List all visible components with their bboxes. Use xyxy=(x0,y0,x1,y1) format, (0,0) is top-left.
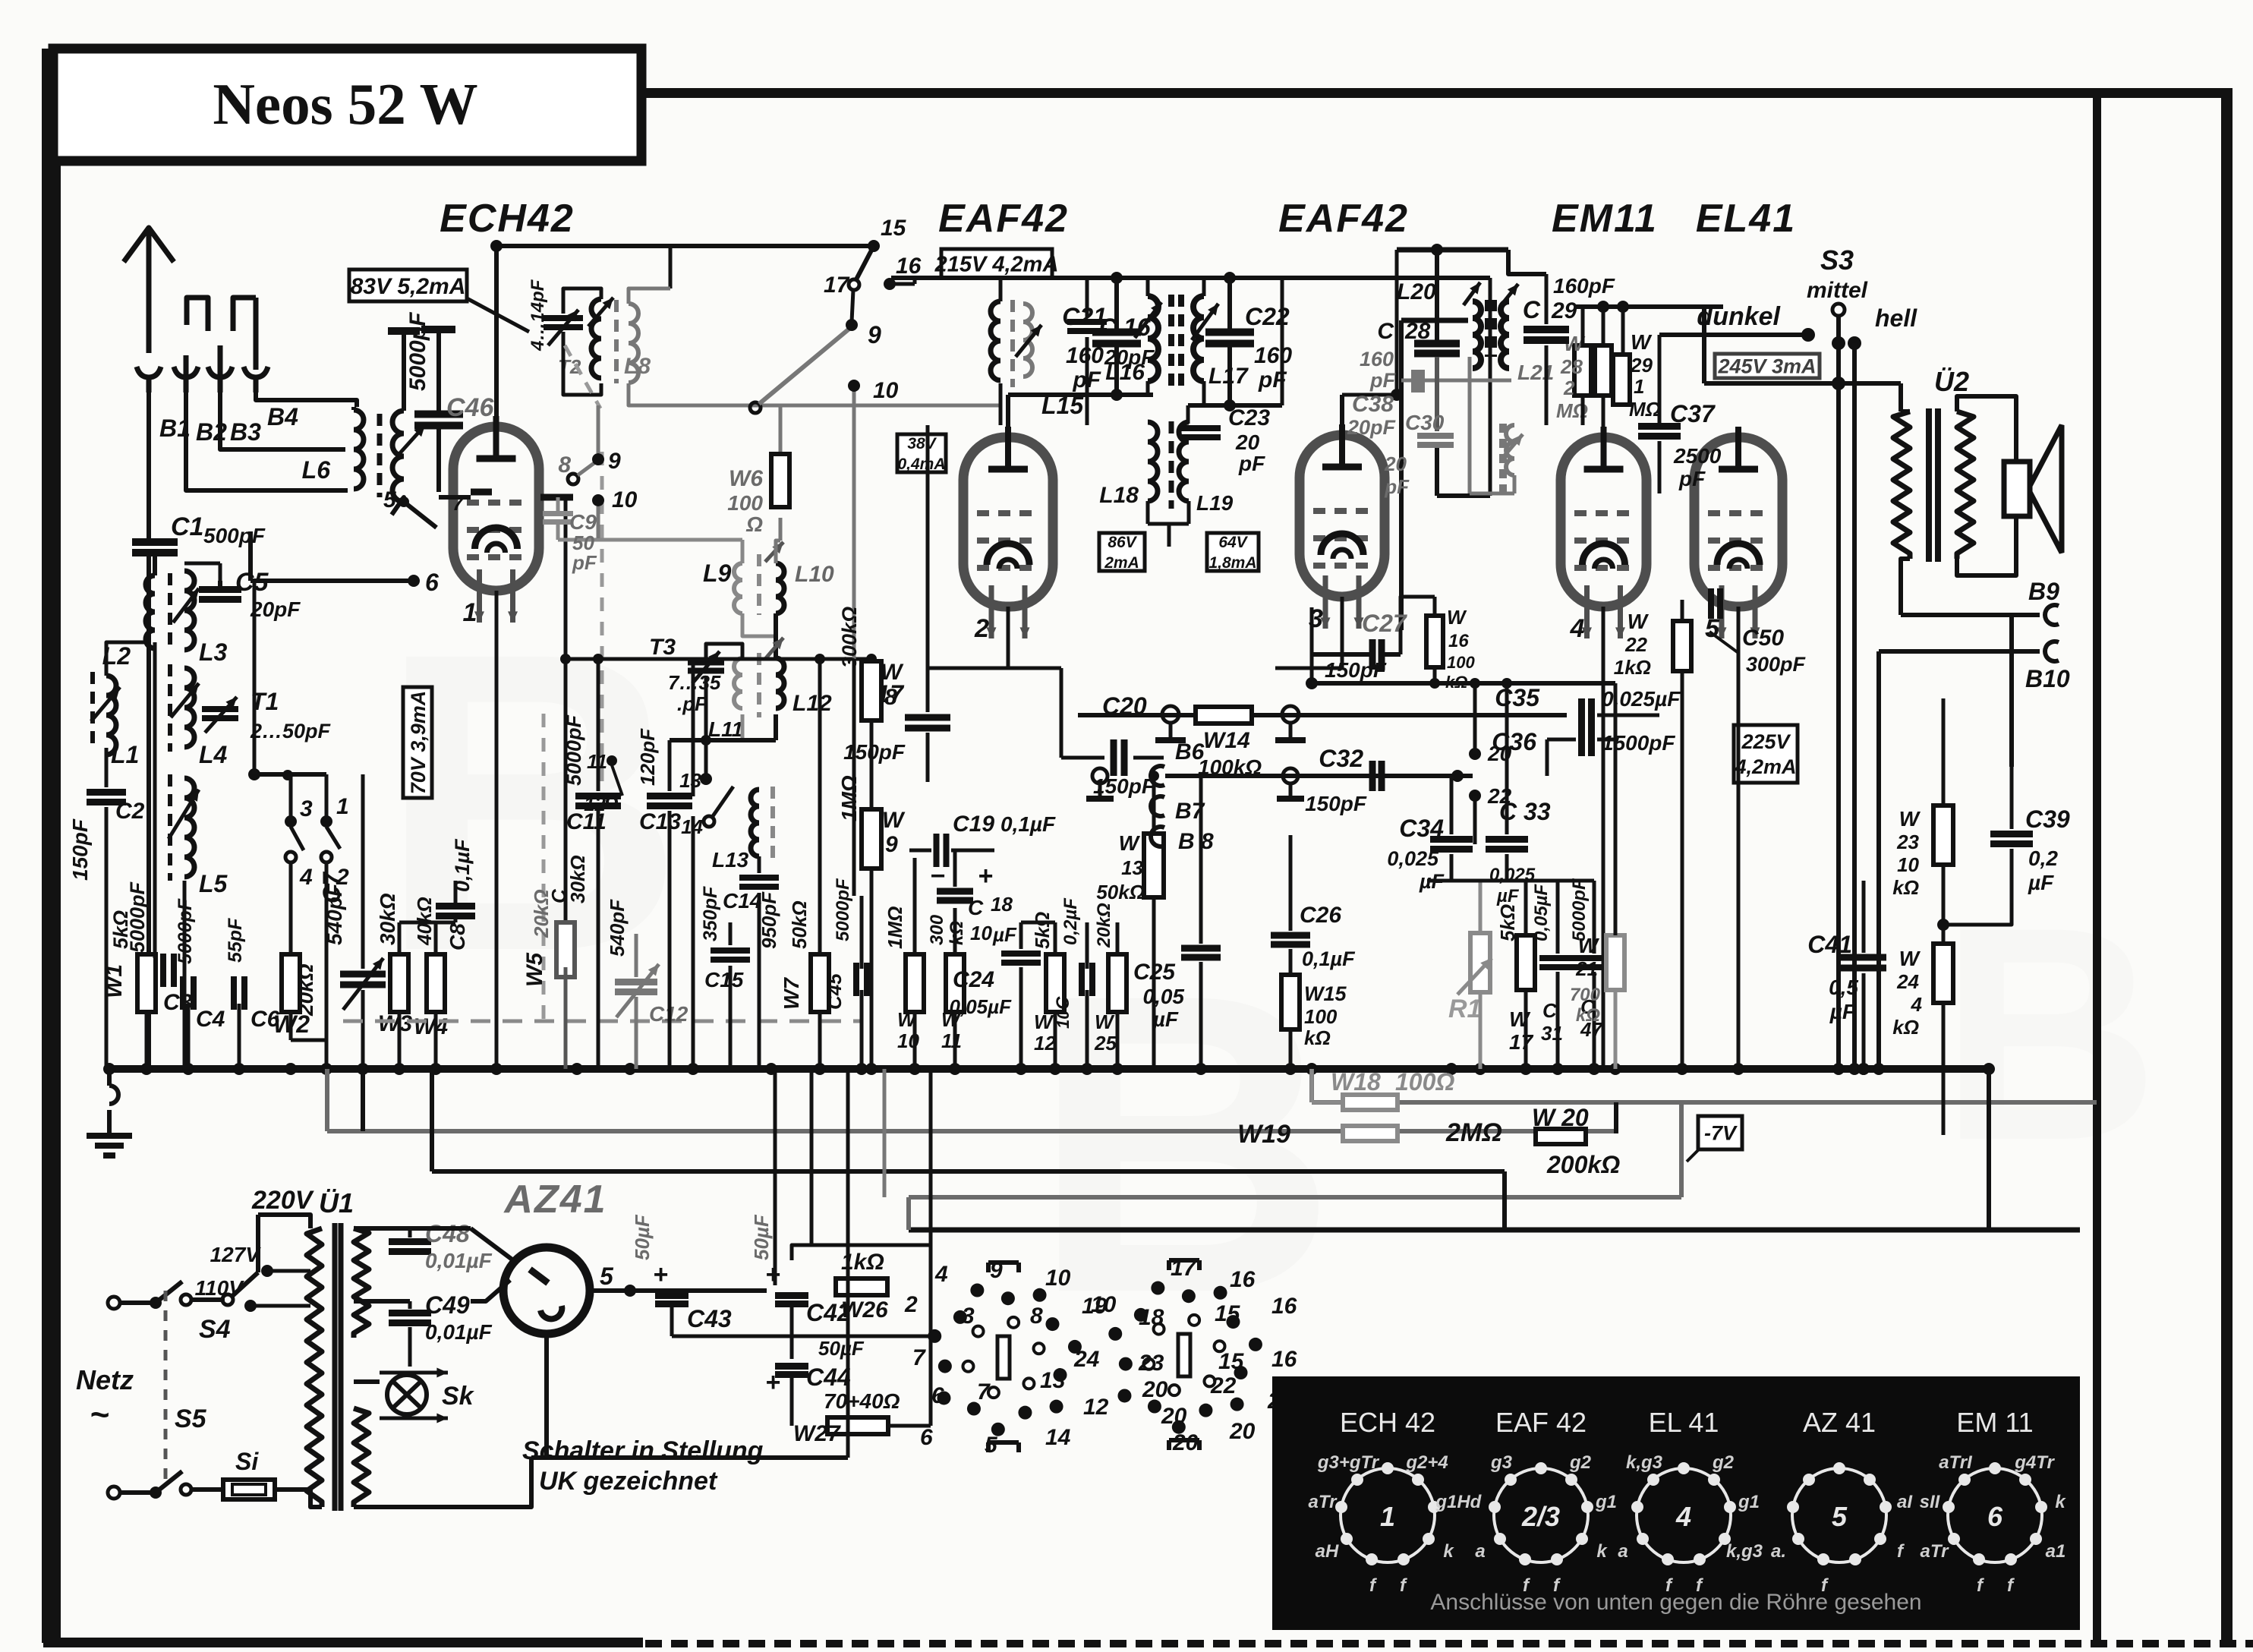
switch 5-7 lever xyxy=(404,492,465,528)
svg-text:225V: 225V xyxy=(1741,730,1791,753)
svg-text:kΩ: kΩ xyxy=(1304,1026,1331,1049)
wire W3 W4 top xyxy=(399,881,455,954)
svg-text:83V 5,2mA: 83V 5,2mA xyxy=(351,274,466,299)
osc frame wires xyxy=(563,246,1000,454)
resistor W27 xyxy=(793,1389,900,1446)
svg-text:g2+4: g2+4 xyxy=(1405,1452,1448,1473)
core L8 xyxy=(614,300,619,383)
svg-text:18: 18 xyxy=(1139,1305,1164,1330)
resistor W6 lead xyxy=(779,436,783,541)
svg-text:µF: µF xyxy=(992,923,1017,946)
wire tube3 plate xyxy=(1342,395,1397,424)
svg-text:W7: W7 xyxy=(780,977,803,1010)
switch S5 lever top xyxy=(156,1282,191,1305)
svg-text:64V: 64V xyxy=(1218,534,1248,551)
svg-text:AZ41: AZ41 xyxy=(503,1178,607,1222)
wire 225 box area xyxy=(1783,683,1785,714)
svg-text:S4: S4 xyxy=(199,1315,231,1344)
svg-text:0,1µF: 0,1µF xyxy=(451,838,474,892)
transformer U2 label xyxy=(1934,366,1969,397)
svg-text:S5: S5 xyxy=(175,1405,207,1433)
svg-text:EM 11: EM 11 xyxy=(1956,1407,2033,1438)
page border bottom solid xyxy=(43,1638,643,1647)
label EAF42 first xyxy=(938,197,1069,241)
cap C10 xyxy=(1053,897,1092,1029)
L21 secondary gray xyxy=(1470,357,1554,493)
svg-text:2500: 2500 xyxy=(1673,444,1722,468)
cap C6 xyxy=(225,918,280,1032)
svg-text:15: 15 xyxy=(1218,1349,1245,1374)
svg-text:160: 160 xyxy=(1360,348,1394,370)
svg-text:C: C xyxy=(1053,996,1073,1010)
svg-text:C: C xyxy=(1542,999,1558,1022)
U2 primary wires xyxy=(1901,383,1910,615)
svg-text:5kΩ: 5kΩ xyxy=(1031,912,1054,949)
svg-text:Netz: Netz xyxy=(76,1364,134,1395)
svg-text:13: 13 xyxy=(1040,1368,1066,1393)
pinout EL 41 xyxy=(1618,1407,1763,1596)
svg-text:150pF: 150pF xyxy=(1305,792,1367,815)
cap C27 xyxy=(1306,597,1435,689)
wire 10 long down xyxy=(852,386,856,896)
svg-text:kΩ: kΩ xyxy=(1892,1016,1919,1039)
svg-text:W: W xyxy=(1447,606,1467,629)
voltage box 225V 4,2mA xyxy=(1734,725,1798,783)
voltage box 83V 5,2mA xyxy=(349,270,529,332)
label ECH42 xyxy=(440,197,575,241)
svg-text:kΩ: kΩ xyxy=(1576,1005,1600,1026)
switch 8 contacts tube1 xyxy=(540,405,638,538)
svg-text:EAF 42: EAF 42 xyxy=(1495,1407,1587,1438)
svg-text:L19: L19 xyxy=(1196,491,1234,515)
connector B3 xyxy=(208,298,261,446)
coil L6 xyxy=(302,407,364,489)
svg-text:dunkel: dunkel xyxy=(1697,302,1781,331)
svg-text:L8: L8 xyxy=(624,354,651,379)
svg-text:W: W xyxy=(1899,807,1921,831)
svg-text:20: 20 xyxy=(1161,1404,1187,1429)
coil L2 xyxy=(102,575,155,670)
wire W3W4 bottom xyxy=(399,1012,436,1069)
svg-text:C15: C15 xyxy=(704,968,744,992)
resistor W2 20k xyxy=(273,954,317,1038)
cap C29 xyxy=(1508,250,1615,425)
cap C11 xyxy=(562,659,621,1069)
svg-text:11: 11 xyxy=(941,1029,962,1052)
svg-text:L16: L16 xyxy=(1105,360,1145,385)
svg-text:W: W xyxy=(1631,330,1653,354)
svg-text:L4: L4 xyxy=(199,741,228,768)
coil L9 xyxy=(558,540,742,613)
svg-text:k: k xyxy=(2055,1492,2066,1512)
coil L10 xyxy=(765,541,834,613)
osc xfmr1 bottoms xyxy=(687,613,776,658)
heater bus wire 1 xyxy=(1312,1069,2097,1102)
switch S4 xyxy=(192,1272,258,1344)
svg-text:EAF42: EAF42 xyxy=(938,197,1069,241)
svg-text:6: 6 xyxy=(920,1425,933,1450)
label EL41 xyxy=(1696,197,1796,241)
svg-text:31: 31 xyxy=(1541,1022,1563,1045)
svg-text:0,4mA: 0,4mA xyxy=(897,456,945,473)
svg-text:g3: g3 xyxy=(1490,1452,1513,1473)
svg-text:150pF: 150pF xyxy=(1325,658,1387,682)
svg-text:g1H: g1H xyxy=(1435,1492,1470,1512)
wire node6 left xyxy=(248,531,253,581)
svg-text:10: 10 xyxy=(1897,853,1919,876)
label 4-14pF xyxy=(528,279,548,352)
svg-text:16: 16 xyxy=(1448,631,1469,651)
svg-text:W14: W14 xyxy=(1203,728,1250,753)
page border right inner xyxy=(2093,93,2101,1646)
svg-text:10: 10 xyxy=(1045,1266,1071,1291)
svg-text:127V: 127V xyxy=(210,1243,262,1266)
svg-text:15: 15 xyxy=(881,216,907,241)
svg-text:C30: C30 xyxy=(1405,411,1445,434)
svg-text:C27: C27 xyxy=(1362,610,1408,637)
svg-text:1kΩ: 1kΩ xyxy=(1614,656,1651,679)
IF1 coil L16 xyxy=(1105,296,1161,385)
cap C45 xyxy=(823,878,867,1069)
AZ41 envelope xyxy=(503,1247,590,1334)
svg-text:g4Tr: g4Tr xyxy=(2014,1452,2055,1473)
wire em11 top rail xyxy=(1575,301,1723,437)
cap C31 xyxy=(1531,883,1576,1045)
pinout AZ 41 xyxy=(1771,1407,1913,1596)
IF2 frame xyxy=(1148,405,1201,547)
resistor W17 xyxy=(1496,904,1535,1054)
connector B1 xyxy=(137,367,191,442)
coil L20 xyxy=(1397,279,1481,368)
svg-text:µF: µF xyxy=(1829,1000,1856,1023)
svg-text:+: + xyxy=(978,862,993,891)
page border bottom dashed edge xyxy=(645,1640,2253,1647)
U2 core xyxy=(1929,408,1938,562)
fuse Si xyxy=(192,1448,310,1499)
wire C11 xyxy=(692,659,695,1069)
cap C18 electrolytic xyxy=(930,862,1017,946)
U2 secondary winding xyxy=(1957,411,1974,559)
svg-text:2: 2 xyxy=(974,614,989,643)
svg-text:C42: C42 xyxy=(806,1299,851,1326)
svg-text:0,2µF: 0,2µF xyxy=(1060,897,1081,945)
wire L7 top xyxy=(388,331,420,411)
svg-text:1500pF: 1500pF xyxy=(1602,731,1675,755)
speaker xyxy=(2004,425,2062,553)
IF1 frame xyxy=(1008,278,1282,411)
svg-text:245V 3mA: 245V 3mA xyxy=(1717,355,1816,378)
svg-text:C49: C49 xyxy=(425,1291,470,1319)
transformer U1 label xyxy=(319,1187,354,1219)
pinout panel background xyxy=(1272,1376,2080,1630)
svg-text:C37: C37 xyxy=(1670,400,1716,427)
svg-text:1MΩ: 1MΩ xyxy=(884,906,906,949)
svg-text:+: + xyxy=(653,1260,668,1289)
svg-text:17: 17 xyxy=(1509,1030,1534,1054)
svg-text:4: 4 xyxy=(299,865,313,890)
core L11 L12 xyxy=(757,653,761,717)
wire C1 down xyxy=(153,555,157,575)
svg-text:L20: L20 xyxy=(1397,279,1436,304)
label Schalter xyxy=(522,1436,764,1496)
power vertical feeds xyxy=(775,1069,884,1458)
gang link dashed vertical xyxy=(544,345,602,1021)
svg-text:5kΩ: 5kΩ xyxy=(1496,904,1519,941)
svg-text:µF: µF xyxy=(2028,871,2054,894)
IF2 core xyxy=(1169,421,1174,509)
svg-text:0,2: 0,2 xyxy=(2028,846,2058,870)
svg-text:6: 6 xyxy=(425,569,439,596)
core L2 L3 xyxy=(168,573,172,645)
svg-text:3: 3 xyxy=(300,796,313,821)
U2 secondary wires xyxy=(1957,396,2016,575)
wire W21 xyxy=(1614,683,1618,1069)
resistor W13 xyxy=(1096,771,1164,1069)
svg-text:−: − xyxy=(930,862,945,891)
svg-text:70V 3,9mA: 70V 3,9mA xyxy=(407,691,430,795)
svg-text:C50: C50 xyxy=(1742,626,1784,651)
cap C25 xyxy=(1133,948,1221,1031)
svg-text:29: 29 xyxy=(1551,298,1577,323)
cap C47 xyxy=(1569,878,1612,1041)
switch contact 1-2 xyxy=(320,794,349,890)
wires R1 W17 area xyxy=(1427,683,1594,1069)
svg-text:C2: C2 xyxy=(115,799,145,824)
antenna xyxy=(124,228,174,353)
vertical wires middle xyxy=(1087,317,1169,668)
svg-text:hell: hell xyxy=(1875,304,1917,332)
svg-text:3: 3 xyxy=(962,1304,975,1329)
cap C33 xyxy=(1486,798,1551,906)
svg-text:2mA: 2mA xyxy=(1104,554,1139,572)
wire tube4 bottom xyxy=(1602,607,1605,1069)
ground symbol xyxy=(87,1136,132,1155)
wire y975 xyxy=(670,735,776,746)
voltage box 86V 2mA xyxy=(1099,533,1145,572)
svg-text:2: 2 xyxy=(904,1292,918,1317)
svg-text:24: 24 xyxy=(1896,970,1919,993)
svg-text:2: 2 xyxy=(1563,377,1575,399)
svg-text:L6: L6 xyxy=(302,456,331,484)
right vertical wires xyxy=(1839,383,2012,1230)
switch wafer A xyxy=(904,1258,1117,1458)
coil L13 xyxy=(709,779,773,872)
electrolytic C42 xyxy=(750,1214,851,1326)
svg-text:pF: pF xyxy=(1678,467,1706,490)
title text Neos 52 W xyxy=(213,71,477,137)
cap C30 xyxy=(1384,357,1490,498)
svg-text:C4: C4 xyxy=(196,1007,225,1032)
coil L7 xyxy=(392,411,425,502)
bus wire 3 xyxy=(432,1169,1505,1174)
svg-text:d: d xyxy=(1470,1492,1483,1512)
svg-text:C34: C34 xyxy=(1399,815,1444,842)
wire L1 chain xyxy=(106,642,149,987)
wire dunkel xyxy=(1659,302,1815,425)
cap C48 xyxy=(354,1220,493,1272)
svg-text:300: 300 xyxy=(927,914,947,945)
svg-text:B6: B6 xyxy=(1175,739,1205,765)
core L9 L10 xyxy=(757,554,761,615)
cap C38 xyxy=(1347,320,1511,630)
svg-text:W: W xyxy=(1899,947,1921,970)
svg-text:B4: B4 xyxy=(267,403,298,430)
svg-text:20: 20 xyxy=(1142,1377,1168,1402)
connector B2 xyxy=(174,298,227,446)
svg-text:pF: pF xyxy=(1072,367,1101,393)
svg-text:k: k xyxy=(1443,1541,1454,1562)
tube3 bottom wire xyxy=(1275,597,1342,668)
svg-text:C7: C7 xyxy=(318,871,345,903)
coil L5 xyxy=(169,774,228,897)
resistor W3 30k xyxy=(376,893,412,1036)
svg-text:12: 12 xyxy=(1034,1032,1056,1055)
wire tube2 bottom xyxy=(928,607,1008,668)
svg-text:5: 5 xyxy=(383,487,397,512)
svg-text:Sk: Sk xyxy=(442,1382,475,1411)
svg-text:24: 24 xyxy=(1073,1347,1100,1372)
svg-text:0,1µF: 0,1µF xyxy=(1000,812,1056,836)
wire B+ to Ü2 xyxy=(1704,381,1901,386)
svg-text:5kΩ: 5kΩ xyxy=(109,910,132,949)
tube EAF42 V3 xyxy=(1300,424,1385,633)
wire C21 xyxy=(1114,278,1119,395)
svg-text:C32: C32 xyxy=(1319,745,1363,772)
tube ECH42 V1 xyxy=(453,416,539,627)
wire y366 main xyxy=(891,272,1490,496)
connector B6 xyxy=(1151,739,1205,786)
ground lead xyxy=(109,1069,118,1136)
U1 primary winding xyxy=(307,1228,322,1507)
svg-text:L18: L18 xyxy=(1099,483,1139,508)
svg-text:L21: L21 xyxy=(1517,361,1554,384)
svg-text:14: 14 xyxy=(1045,1425,1071,1450)
wire tube1 plate up xyxy=(490,240,503,416)
svg-text:0,05µF: 0,05µF xyxy=(950,995,1013,1018)
svg-text:4: 4 xyxy=(1911,993,1923,1016)
svg-text:C41: C41 xyxy=(1807,931,1852,958)
svg-text:aTr: aTr xyxy=(1921,1541,1950,1562)
svg-text:W: W xyxy=(1119,831,1141,855)
svg-text:5: 5 xyxy=(600,1263,614,1290)
lamp Sk xyxy=(387,1375,475,1414)
svg-text:16: 16 xyxy=(1271,1294,1297,1319)
resistor W12 xyxy=(1031,912,1064,1055)
svg-text:110V: 110V xyxy=(195,1276,245,1300)
svg-text:38V: 38V xyxy=(907,435,937,452)
svg-text:g1: g1 xyxy=(1595,1492,1617,1512)
svg-text:-7V: -7V xyxy=(1704,1122,1738,1145)
svg-text:1MΩ: 1MΩ xyxy=(837,775,861,821)
svg-text:5000pF: 5000pF xyxy=(562,714,585,786)
svg-text:a1: a1 xyxy=(2046,1541,2066,1562)
svg-text:Si: Si xyxy=(235,1448,259,1475)
cap C3 xyxy=(163,954,193,1015)
svg-text:Anschlüsse von unten gegen die: Anschlüsse von unten gegen die Röhre ges… xyxy=(1430,1590,1921,1615)
left column verticals to bus xyxy=(106,642,239,1069)
svg-text:sII: sII xyxy=(1920,1492,1941,1512)
svg-text:13: 13 xyxy=(1121,856,1143,879)
svg-text:EL 41: EL 41 xyxy=(1649,1407,1719,1438)
wire L15 xyxy=(999,278,1003,425)
svg-text:Schalter in Stellung: Schalter in Stellung xyxy=(522,1436,764,1465)
page border top xyxy=(641,88,2232,98)
label Netz xyxy=(76,1364,134,1433)
U1 core xyxy=(335,1223,341,1511)
svg-text:µF: µF xyxy=(1152,1007,1179,1031)
svg-text:C26: C26 xyxy=(1300,903,1341,928)
svg-text:0,01µF: 0,01µF xyxy=(425,1320,493,1344)
svg-text:ECH42: ECH42 xyxy=(440,197,575,241)
cap C49 xyxy=(354,1291,501,1367)
trimmer T3 xyxy=(649,635,724,715)
resistor W7 xyxy=(780,659,829,1069)
wire W22 xyxy=(1681,600,1684,1069)
svg-text:k,g3: k,g3 xyxy=(1626,1452,1663,1473)
cap C24 xyxy=(950,954,1041,1018)
svg-text:20: 20 xyxy=(1384,452,1407,475)
wire y1022 B6 xyxy=(1086,758,1473,799)
svg-text:28: 28 xyxy=(1560,355,1583,378)
svg-text:pF: pF xyxy=(1384,475,1410,498)
switch S3 xyxy=(1807,244,1868,390)
svg-text:C45: C45 xyxy=(823,973,846,1010)
svg-text:Ω: Ω xyxy=(745,512,763,536)
svg-text:10: 10 xyxy=(612,487,638,512)
connector B10 xyxy=(2025,642,2070,692)
wires C24 W12 xyxy=(1021,922,1117,1069)
cap C22 xyxy=(1205,303,1292,393)
svg-text:9: 9 xyxy=(608,449,621,474)
resistor W1 xyxy=(102,910,156,1012)
svg-text:20kΩ: 20kΩ xyxy=(530,889,553,938)
coil L8 gray xyxy=(624,304,651,383)
svg-text:aTr: aTr xyxy=(1309,1492,1338,1512)
label C7 30k rot xyxy=(547,855,589,903)
svg-text:4: 4 xyxy=(934,1262,948,1287)
mains terminals xyxy=(108,1297,120,1499)
svg-text:20kΩ: 20kΩ xyxy=(1094,903,1114,948)
tube EL41 V5 xyxy=(1694,427,1782,643)
cap C21 xyxy=(1062,303,1141,393)
wire to B9 B10 xyxy=(1879,615,2040,651)
cap C37 xyxy=(1638,400,1722,493)
svg-text:C43: C43 xyxy=(687,1305,732,1332)
resistor W16 xyxy=(1426,597,1475,692)
U1 secondary heater xyxy=(354,1408,369,1507)
svg-text:220V: 220V xyxy=(251,1186,315,1215)
wires C25 C26 xyxy=(1201,776,1290,1069)
svg-text:9: 9 xyxy=(868,321,881,348)
connector B7 xyxy=(1151,796,1205,824)
svg-text:23: 23 xyxy=(1896,831,1919,853)
svg-text:a: a xyxy=(1618,1541,1628,1562)
cap C8 xyxy=(436,838,475,951)
cap C39 xyxy=(1990,806,2070,894)
page border left xyxy=(42,49,61,1643)
resistor W15 xyxy=(1281,975,1347,1049)
resistor W6 100 xyxy=(727,454,789,536)
svg-text:25: 25 xyxy=(1094,1032,1117,1055)
svg-text:C19: C19 xyxy=(953,812,994,837)
svg-text:12: 12 xyxy=(584,793,606,815)
svg-text:10: 10 xyxy=(970,922,992,944)
cap C4 xyxy=(175,898,225,1032)
svg-text:500pF: 500pF xyxy=(203,524,266,547)
resistor W4 40k xyxy=(413,897,448,1039)
svg-text:50µF: 50µF xyxy=(631,1214,654,1260)
label 5000pF c3 xyxy=(126,881,149,953)
